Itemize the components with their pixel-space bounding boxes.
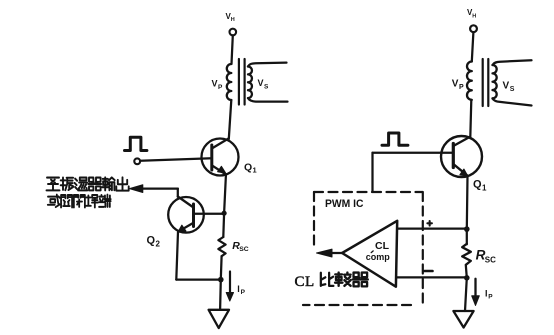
wire node D to ground (right) (465, 278, 467, 311)
comparator output wire (332, 252, 342, 254)
wire node B to ground (219, 280, 222, 310)
wire Q2 emitter down (176, 232, 178, 280)
wire RSC to node D (466, 265, 467, 278)
svg-text:H: H (472, 14, 476, 20)
wire primary bottom to Q1 collector (229, 100, 232, 139)
ground (right) (453, 311, 473, 328)
wire secondary bottom (248, 98, 288, 102)
op-amp U1 CL comparator triangle (342, 221, 397, 287)
wire secondary top (right) (493, 60, 532, 65)
label Vp (right) (452, 78, 464, 91)
pulse symbol (right) (382, 133, 408, 145)
wire Q1 emitter down to node C (466, 176, 469, 229)
svg-text:1: 1 (482, 184, 487, 193)
label Vs (right) (503, 81, 515, 94)
current Ip arrow (right) (474, 279, 476, 296)
wire Q2 emitter to node B (176, 278, 221, 280)
svg-text:V: V (452, 78, 459, 89)
svg-text:S: S (510, 86, 515, 93)
label Q2 (147, 235, 161, 249)
wire Q2 collector up (177, 189, 179, 197)
node B junction dot (218, 277, 224, 283)
node D junction dot (464, 275, 470, 281)
wire node C to RSC (right) (466, 229, 468, 244)
svg-text:P: P (459, 84, 464, 91)
svg-text:2: 2 (156, 240, 161, 249)
ground (left) (209, 310, 229, 328)
transformer T2 primary winding Vp (467, 62, 472, 100)
svg-text:PWM IC: PWM IC (325, 198, 364, 210)
wire input to Q1 base (141, 158, 212, 161)
svg-text:Q: Q (244, 162, 252, 174)
transistor Q1 (right) (441, 136, 482, 177)
label Vs (left secondary) (258, 78, 270, 90)
transformer T1 secondary winding Vs (248, 67, 252, 99)
wire Q1 emitter down to node A (224, 176, 226, 214)
wire secondary bottom (right) (493, 98, 532, 105)
PWM IC dashed box (303, 192, 423, 305)
resistor RSC (right) (462, 244, 471, 265)
wire primary bottom to Q1 collector (right) (470, 100, 471, 137)
comparator output arrowhead (317, 249, 333, 257)
svg-text:P: P (241, 289, 246, 296)
node VH (right supply terminal) (467, 8, 477, 32)
svg-text:S: S (264, 83, 269, 90)
label Q1 (left) (244, 162, 257, 175)
node VH (left supply terminal) (226, 12, 237, 36)
label + input (427, 221, 432, 226)
label - input (425, 270, 433, 273)
net label: 或關閉埠端 (or shutdown terminal) (48, 195, 111, 208)
node A junction dot (222, 211, 227, 216)
svg-text:I: I (485, 289, 488, 299)
transformer T1 primary winding Vp (227, 64, 232, 100)
svg-text:Q: Q (147, 235, 156, 247)
label RSC (right) (476, 247, 497, 264)
node C junction dot (464, 226, 470, 232)
current Ip arrow (left) (229, 272, 231, 293)
svg-text:1: 1 (253, 166, 257, 175)
wire node A to resistor RSC (222, 213, 225, 237)
transformer T2 core (483, 59, 489, 106)
svg-text:SC: SC (239, 246, 249, 253)
wire secondary top (248, 63, 287, 67)
svg-text:P: P (488, 294, 493, 301)
wire VH to transformer (right) (472, 32, 474, 61)
wire down into PWM IC box (371, 153, 373, 191)
wire RSC to node B (220, 256, 223, 279)
wire VH to transformer primary (232, 35, 233, 64)
transformer T2 secondary winding Vs (493, 65, 497, 98)
resistor RSC (left) (218, 237, 225, 256)
arrowhead to oscillator output (130, 185, 143, 193)
label CL comp (366, 240, 391, 262)
label RSC (left) (232, 240, 248, 253)
transformer T1 core (239, 59, 245, 105)
label Ip (left) (237, 284, 245, 296)
svg-text:SC: SC (485, 255, 496, 264)
transistor Q1 (left) (202, 139, 239, 176)
label Q1 (right) (473, 179, 487, 193)
svg-text:H: H (231, 17, 235, 23)
svg-text:CL: CL (375, 240, 390, 252)
svg-text:Q: Q (473, 179, 482, 191)
wire to output arrow (at oscillator output) (142, 187, 178, 189)
svg-text:CL: CL (295, 274, 315, 290)
svg-text:V: V (503, 81, 510, 92)
label Vp (left primary) (212, 79, 224, 91)
input terminal (left drive) (134, 158, 140, 164)
svg-text:V: V (258, 78, 264, 88)
wire comparator + input (397, 227, 467, 229)
svg-text:P: P (218, 84, 223, 91)
wire comparator - input (396, 276, 467, 278)
svg-text:I: I (237, 284, 240, 294)
net label: 至振盪器輸出 (to oscillator output) (47, 177, 129, 190)
svg-text:V: V (212, 79, 218, 89)
pulse symbol (left) (125, 137, 147, 150)
svg-text:comp: comp (366, 252, 391, 262)
wire node A to Q2 base (194, 213, 224, 215)
label Ip (right) (485, 289, 493, 301)
wire Q1 base to PWM IC (373, 152, 454, 154)
transistor Q2 (168, 197, 204, 233)
